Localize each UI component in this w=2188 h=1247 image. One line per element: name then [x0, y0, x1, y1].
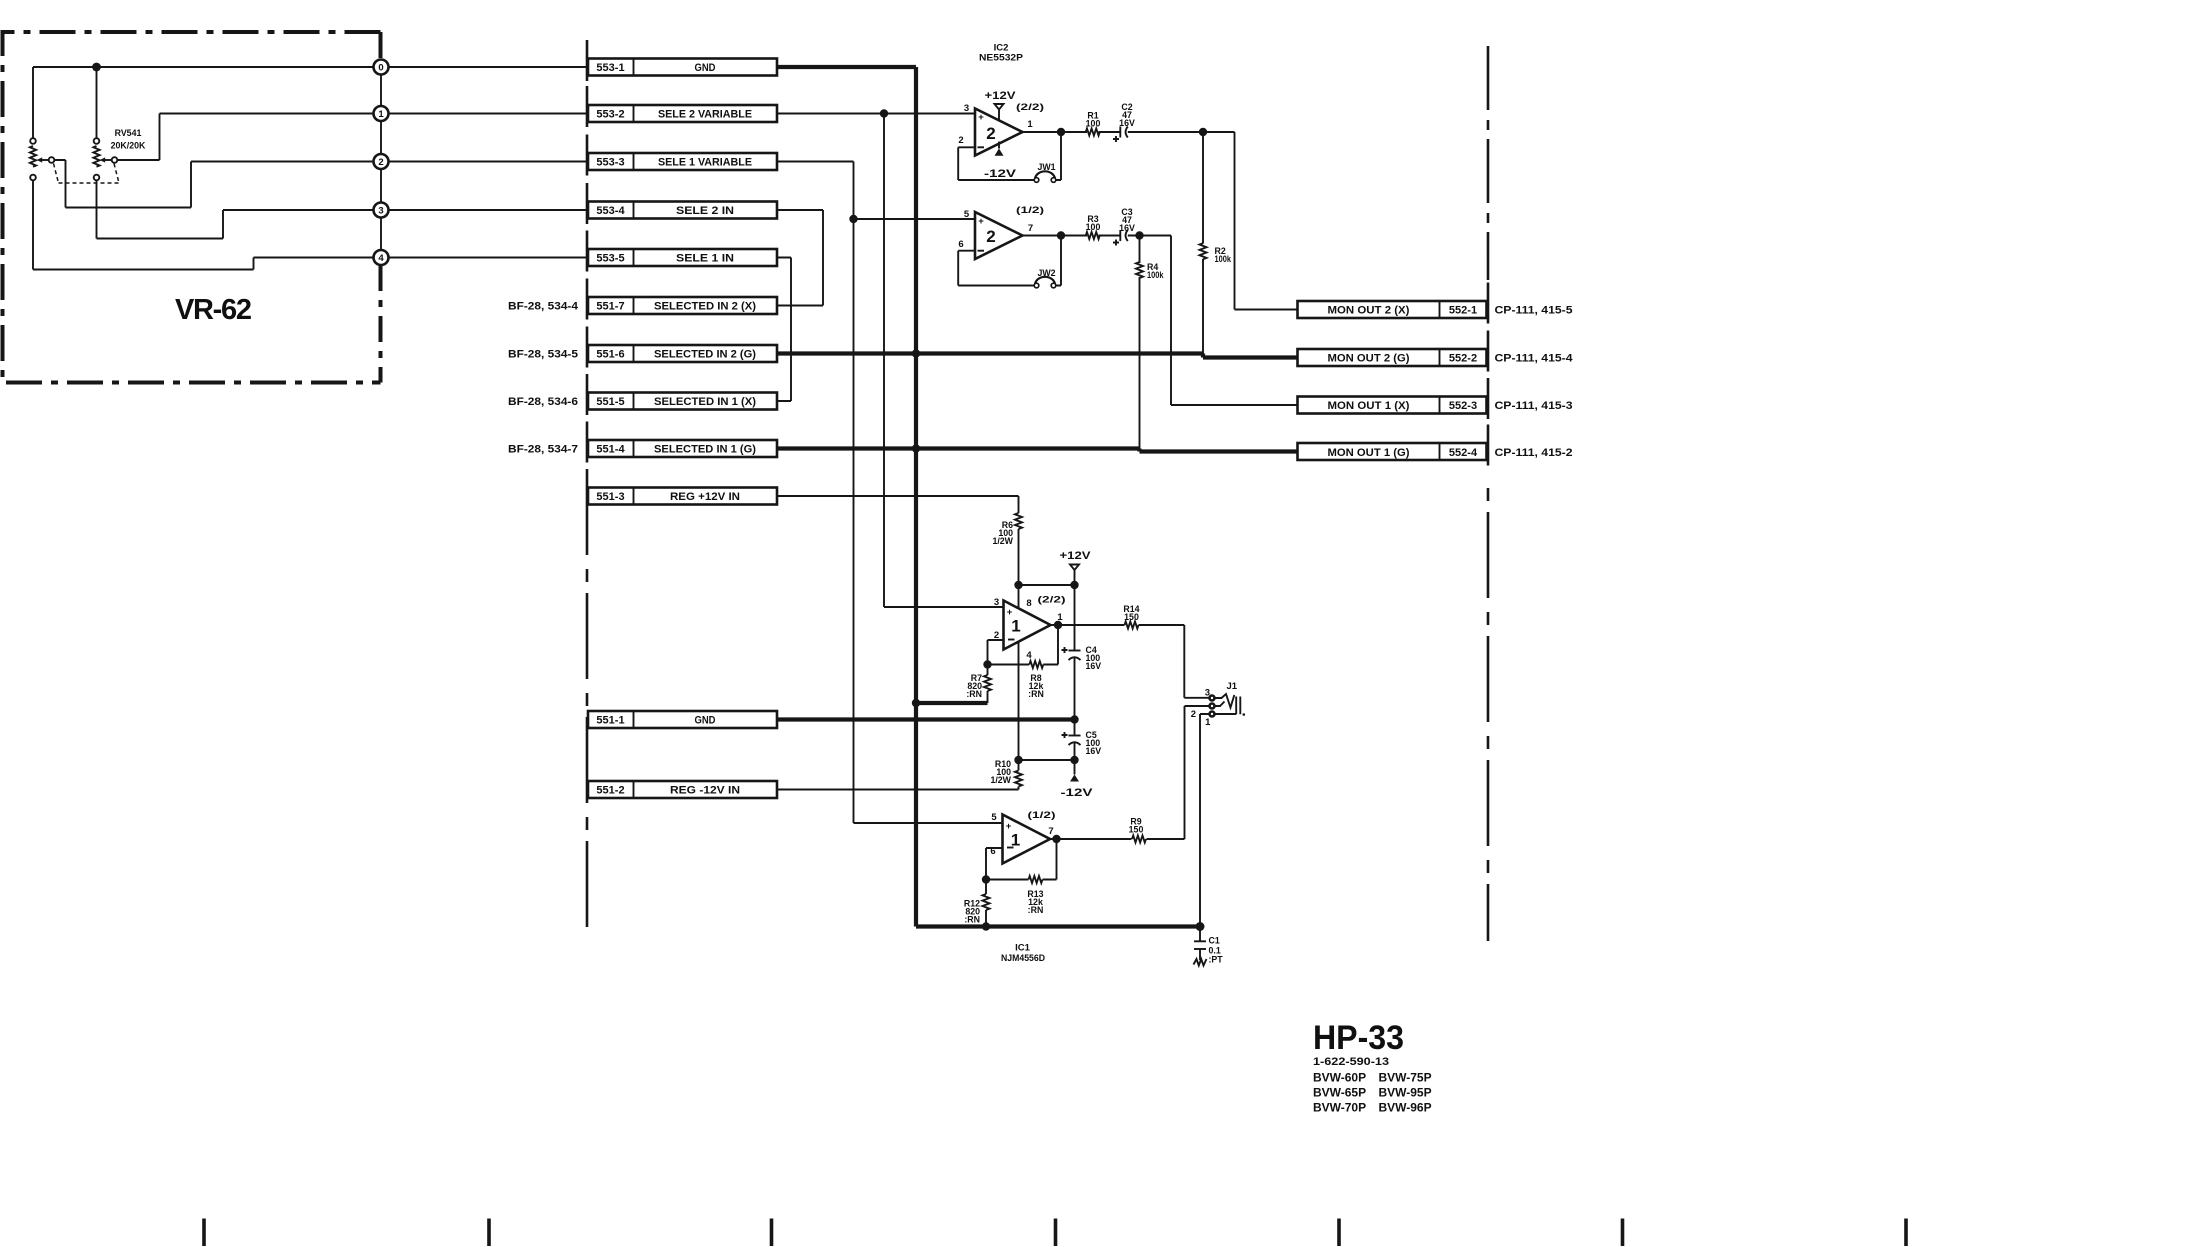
svg-text:J1: J1 — [1227, 681, 1238, 692]
svg-text:GND: GND — [695, 715, 716, 727]
svg-text::RN: :RN — [964, 915, 980, 925]
svg-text:553-1: 553-1 — [596, 62, 624, 74]
svg-text:1: 1 — [1027, 119, 1033, 130]
svg-text:+: + — [978, 216, 984, 227]
svg-text:0: 0 — [378, 63, 383, 74]
svg-text:SELECTED IN 2 (X): SELECTED IN 2 (X) — [654, 301, 756, 313]
svg-text:552-4: 552-4 — [1449, 447, 1478, 459]
svg-text:BVW-70P: BVW-70P — [1313, 1101, 1366, 1115]
svg-text:3: 3 — [964, 103, 969, 114]
svg-text::RN: :RN — [1028, 905, 1044, 915]
svg-text:1/2W: 1/2W — [990, 775, 1011, 785]
svg-text:3: 3 — [1205, 688, 1210, 699]
svg-text:+12V: +12V — [985, 90, 1017, 102]
svg-text:551-6: 551-6 — [596, 349, 624, 361]
svg-text:CP-111, 415-4: CP-111, 415-4 — [1495, 353, 1574, 365]
svg-text:SELE 2 VARIABLE: SELE 2 VARIABLE — [658, 109, 752, 121]
svg-text:BF-28, 534-7: BF-28, 534-7 — [508, 444, 578, 456]
svg-text:551-4: 551-4 — [596, 444, 625, 456]
svg-text:BVW-96P: BVW-96P — [1379, 1101, 1432, 1115]
svg-text:-12V: -12V — [984, 168, 1017, 180]
svg-text:553-5: 553-5 — [596, 253, 624, 265]
svg-text::RN: :RN — [966, 689, 982, 699]
svg-text:MON OUT 2 (G): MON OUT 2 (G) — [1328, 353, 1410, 365]
svg-text:CP-111, 415-5: CP-111, 415-5 — [1495, 305, 1573, 317]
svg-text:+: + — [1007, 607, 1013, 618]
svg-text:2: 2 — [378, 157, 383, 168]
svg-text:6: 6 — [958, 239, 963, 250]
svg-text:100: 100 — [1086, 119, 1101, 129]
svg-text:150: 150 — [1124, 612, 1139, 622]
svg-text:552-2: 552-2 — [1449, 353, 1477, 365]
svg-text:HP-33: HP-33 — [1313, 1019, 1404, 1057]
svg-text::RN: :RN — [1028, 689, 1044, 699]
svg-text:16V: 16V — [1119, 223, 1135, 233]
svg-text::PT: :PT — [1209, 955, 1224, 965]
svg-text:4: 4 — [1026, 650, 1032, 661]
svg-text:16V: 16V — [1086, 661, 1102, 671]
svg-text:2: 2 — [986, 227, 995, 246]
svg-text:CP-111, 415-2: CP-111, 415-2 — [1495, 447, 1573, 459]
svg-text:7: 7 — [1028, 223, 1033, 234]
svg-text:2: 2 — [1191, 709, 1196, 720]
svg-text:551-3: 551-3 — [596, 491, 624, 503]
svg-text:7: 7 — [1048, 826, 1053, 837]
svg-text:BVW-65P: BVW-65P — [1313, 1086, 1366, 1100]
svg-text:NE5532P: NE5532P — [979, 53, 1024, 64]
svg-text:+: + — [1006, 821, 1012, 832]
svg-text:REG +12V IN: REG +12V IN — [670, 491, 740, 503]
svg-text:MON OUT 2 (X): MON OUT 2 (X) — [1328, 305, 1410, 317]
svg-text:1/2W: 1/2W — [992, 536, 1013, 546]
svg-text:(1/2): (1/2) — [1028, 810, 1056, 820]
svg-text:SELE 1 VARIABLE: SELE 1 VARIABLE — [658, 157, 752, 169]
svg-text:(2/2): (2/2) — [1038, 595, 1066, 605]
svg-text:REG -12V IN: REG -12V IN — [670, 785, 740, 797]
svg-text:BVW-60P: BVW-60P — [1313, 1071, 1366, 1085]
svg-text:16V: 16V — [1119, 118, 1135, 128]
svg-text:VR-62: VR-62 — [175, 294, 252, 326]
svg-text:JW1: JW1 — [1037, 162, 1055, 172]
svg-text:16V: 16V — [1086, 746, 1102, 756]
svg-text:SELECTED IN 1 (X): SELECTED IN 1 (X) — [654, 396, 756, 408]
svg-text:SELE 1 IN: SELE 1 IN — [676, 253, 734, 265]
svg-text:4: 4 — [378, 253, 384, 264]
svg-text:1: 1 — [1205, 717, 1211, 728]
svg-text:MON OUT 1 (X): MON OUT 1 (X) — [1328, 400, 1410, 412]
svg-text:553-2: 553-2 — [596, 109, 624, 121]
svg-text:BF-28, 534-6: BF-28, 534-6 — [508, 396, 578, 408]
svg-text:100: 100 — [1086, 222, 1101, 232]
svg-text:(1/2): (1/2) — [1016, 205, 1044, 215]
svg-text:1: 1 — [1011, 617, 1020, 636]
svg-text:1-622-590-13: 1-622-590-13 — [1313, 1056, 1389, 1068]
svg-text:552-1: 552-1 — [1449, 305, 1477, 317]
svg-text:SELECTED IN 2 (G): SELECTED IN 2 (G) — [654, 349, 756, 361]
svg-text:BF-28, 534-5: BF-28, 534-5 — [508, 349, 578, 361]
svg-text:553-3: 553-3 — [596, 157, 624, 169]
svg-text:8: 8 — [1026, 598, 1031, 609]
svg-text:JW2: JW2 — [1037, 268, 1055, 278]
svg-text:+: + — [978, 112, 984, 123]
svg-text:SELE 2 IN: SELE 2 IN — [676, 205, 734, 217]
svg-text:IC1: IC1 — [1015, 943, 1031, 954]
svg-text:SELECTED IN 1 (G): SELECTED IN 1 (G) — [654, 444, 756, 456]
svg-text:3: 3 — [994, 597, 999, 608]
svg-text:5: 5 — [991, 812, 997, 823]
svg-text:553-4: 553-4 — [596, 205, 625, 217]
svg-text:2: 2 — [958, 135, 963, 146]
svg-text:551-5: 551-5 — [596, 396, 624, 408]
svg-text:C1: C1 — [1209, 936, 1220, 946]
svg-text:1: 1 — [378, 109, 384, 120]
svg-text:MON OUT 1 (G): MON OUT 1 (G) — [1328, 447, 1410, 459]
svg-text:551-2: 551-2 — [596, 785, 624, 797]
svg-text:5: 5 — [964, 209, 970, 220]
svg-text:551-1: 551-1 — [596, 715, 624, 727]
svg-text:-12V: -12V — [1061, 787, 1094, 799]
svg-text:100k: 100k — [1147, 270, 1164, 280]
svg-text:552-3: 552-3 — [1449, 400, 1477, 412]
svg-text:RV541: RV541 — [115, 128, 142, 138]
svg-text:20K/20K: 20K/20K — [111, 141, 146, 151]
svg-text:CP-111, 415-3: CP-111, 415-3 — [1495, 400, 1573, 412]
svg-text:BVW-95P: BVW-95P — [1379, 1086, 1432, 1100]
svg-text:(2/2): (2/2) — [1016, 102, 1044, 112]
svg-text:100k: 100k — [1215, 254, 1232, 264]
svg-text:+12V: +12V — [1060, 550, 1092, 562]
svg-text:BF-28, 534-4: BF-28, 534-4 — [508, 301, 579, 313]
svg-text:150: 150 — [1129, 825, 1144, 835]
svg-text:BVW-75P: BVW-75P — [1379, 1071, 1432, 1085]
svg-text:2: 2 — [986, 124, 995, 143]
svg-text:NJM4556D: NJM4556D — [1001, 953, 1045, 964]
svg-text:551-7: 551-7 — [596, 301, 624, 313]
svg-text:GND: GND — [695, 62, 716, 74]
svg-text:3: 3 — [378, 206, 383, 217]
